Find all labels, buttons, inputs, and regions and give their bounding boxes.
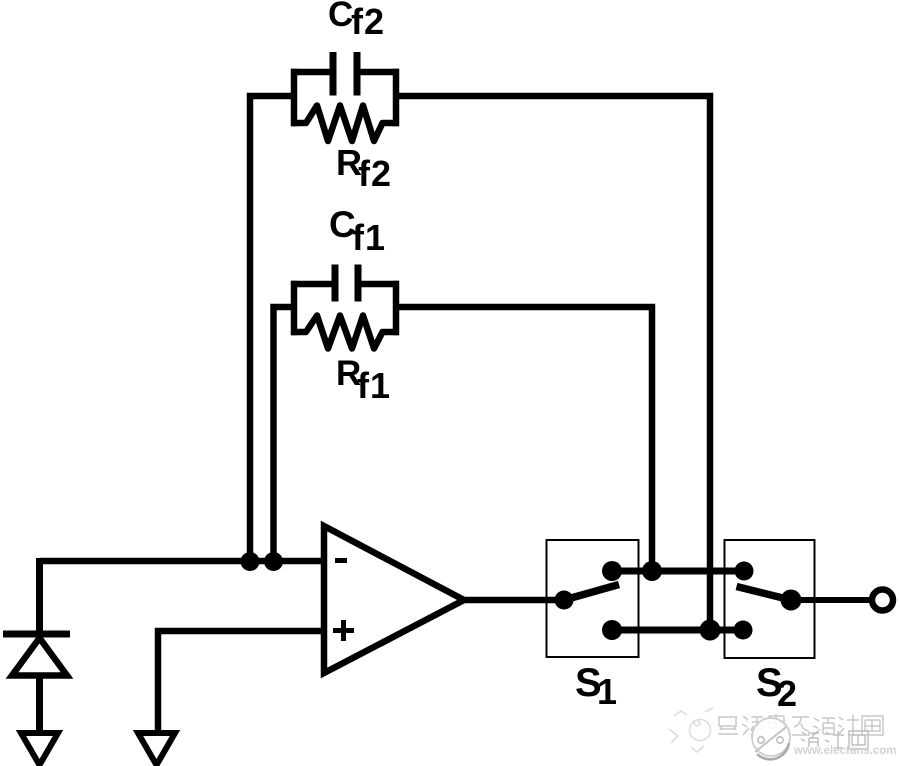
label S1 bbox=[575, 661, 617, 712]
watermark doodle icon bbox=[669, 708, 713, 752]
wire: Cf2 left lead to inverting node bbox=[250, 96, 294, 565]
op-amp minus pin label bbox=[335, 558, 347, 563]
wire: S2 pole to output terminal bbox=[791, 597, 871, 603]
ground (photodiode) bbox=[21, 733, 58, 765]
wire: photodiode anode to ground bbox=[36, 676, 43, 734]
watermark text: brand hanzi row bbox=[718, 714, 883, 735]
wire: non-inverting input net bbox=[158, 631, 324, 734]
wire: inverting input net (photodiode to op-amp minus) bbox=[40, 558, 325, 565]
junction: Cf2 wire at inverting node bbox=[241, 552, 260, 571]
wire: Cf2 right lead over to S2 lower contact bbox=[396, 96, 710, 630]
svg-text:f2: f2 bbox=[351, 1, 385, 42]
node: output terminal bbox=[872, 590, 893, 611]
svg-text:2: 2 bbox=[777, 673, 797, 714]
svg-text:www.elecfans.com: www.elecfans.com bbox=[793, 745, 896, 757]
photodiode PD bbox=[3, 634, 70, 676]
resistor Rf1 bbox=[291, 316, 399, 349]
watermark ghost text fragments bbox=[801, 731, 868, 749]
capacitor Cf1 bbox=[335, 265, 358, 302]
wire: S1 lower contact to S2 lower contact bbox=[612, 627, 743, 634]
switch S1 bbox=[547, 540, 639, 657]
ground (non-inverting input) bbox=[138, 733, 175, 765]
label Rf2 bbox=[336, 142, 392, 194]
label S2 bbox=[756, 661, 797, 714]
wire: op-amp output to S1 pole bbox=[464, 597, 564, 604]
svg-text:f1: f1 bbox=[352, 217, 386, 258]
resistor Rf2 bbox=[291, 106, 399, 142]
label Rf1 bbox=[336, 354, 391, 406]
wire: Cf1 right lead over to S1 upper contact bbox=[396, 307, 652, 571]
label Cf2 bbox=[328, 0, 385, 42]
wire: S1 upper contact to S2 upper contact bbox=[612, 568, 744, 575]
svg-text:C: C bbox=[328, 0, 353, 34]
wire: Rf1/Cf1 network frame bbox=[291, 281, 399, 336]
op-amp plus pin label bbox=[333, 620, 354, 641]
photodiode PD lead (top) bbox=[36, 558, 43, 633]
watermark badge bbox=[752, 718, 790, 759]
svg-text:f1: f1 bbox=[357, 365, 391, 406]
junction: Cf1 feedback on upper rail bbox=[642, 561, 662, 581]
label Cf1 bbox=[329, 204, 386, 258]
junction: Cf2 feedback on lower rail bbox=[700, 620, 721, 641]
op-amp U1 bbox=[324, 526, 464, 673]
svg-text:1: 1 bbox=[597, 671, 617, 712]
capacitor Cf2 bbox=[333, 52, 357, 96]
svg-text:f2: f2 bbox=[358, 153, 392, 194]
wire: Rf2/Cf2 network frame (loop sides and cap branch) bbox=[291, 69, 399, 127]
switch S2 bbox=[725, 540, 815, 658]
wire: Cf1 left lead to inverting node bbox=[274, 307, 295, 565]
junction: Cf1 wire at inverting node bbox=[264, 552, 283, 571]
